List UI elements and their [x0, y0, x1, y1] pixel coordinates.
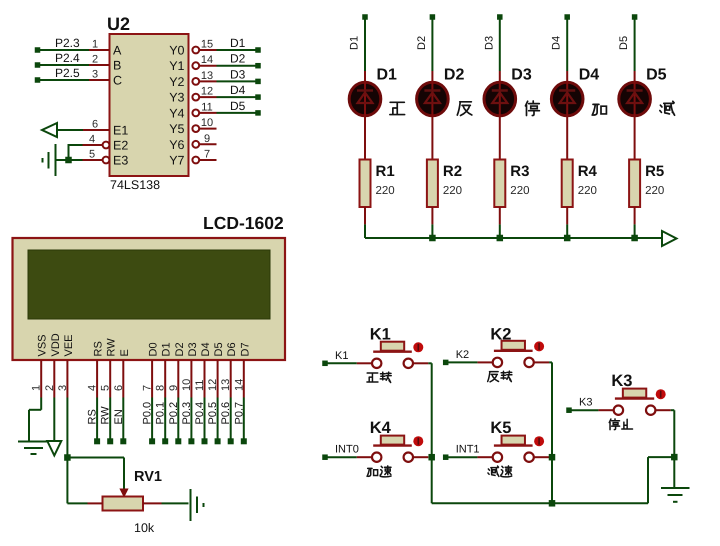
LCD module body: [13, 238, 286, 360]
svg-text:3: 3: [92, 69, 98, 81]
LED reference label D3: [511, 67, 532, 84]
pin A (pin 1) of U2: [89, 49, 110, 51]
LCD pin name D5: [213, 342, 225, 356]
pin number 13: [220, 379, 232, 391]
svg-text:220: 220: [645, 185, 664, 197]
svg-text:6: 6: [92, 119, 98, 131]
svg-text:3: 3: [57, 385, 69, 391]
RV1 reference label: [134, 469, 162, 485]
svg-text:R1: R1: [376, 163, 395, 180]
LCD pin name D3: [187, 342, 199, 356]
push button K4 right contact: [404, 453, 413, 462]
chinese char for D3: [525, 101, 539, 115]
junction bus/R5: [631, 235, 638, 242]
svg-text:C: C: [113, 74, 122, 88]
push button K4 actuator dot: [413, 436, 423, 446]
RV1 right pin: [143, 502, 162, 504]
push button K2 bar: [494, 350, 533, 352]
wire R5 to bus: [634, 207, 636, 238]
svg-text:LCD-1602: LCD-1602: [203, 213, 284, 233]
net label P2.5: [55, 66, 80, 80]
wire net RS: [96, 398, 98, 442]
pin number 10: [201, 117, 213, 129]
svg-text:P0.6: P0.6: [220, 402, 232, 425]
svg-text:D1: D1: [377, 67, 398, 84]
pin number 1: [92, 39, 98, 51]
K5 right pin: [534, 456, 549, 458]
pin number 15: [201, 39, 213, 51]
push button K3 bar: [615, 397, 654, 399]
pin number 13: [201, 70, 213, 82]
svg-text:D7: D7: [239, 342, 251, 356]
svg-text:7: 7: [142, 385, 154, 391]
resistor R2 220: [427, 160, 438, 208]
svg-text:K2: K2: [456, 349, 469, 361]
svg-text:P0.2: P0.2: [168, 402, 180, 425]
svg-text:RV1: RV1: [134, 469, 162, 485]
net label K2: [456, 349, 469, 361]
svg-text:P0.5: P0.5: [207, 402, 219, 425]
net label D4: [230, 83, 246, 97]
wire net P0.6: [230, 398, 232, 442]
pin E1 (pin 6) of U2: [83, 129, 110, 131]
terminal node INT1: [443, 454, 449, 460]
junction E2/E3: [65, 157, 72, 164]
output pin Y0 bubble (pin 15) of U2: [192, 47, 216, 54]
output pin Y1 bubble (pin 14) of U2: [192, 62, 216, 69]
terminal node P0.7: [241, 438, 247, 444]
svg-text:P0.3: P0.3: [181, 402, 193, 425]
pin number 4: [89, 134, 95, 146]
pin number 3: [57, 385, 69, 391]
pin E2 bubble (pin 4) of U2: [83, 142, 110, 149]
junction K5 right: [549, 454, 556, 461]
power arrow symbol (VDD): [47, 441, 61, 456]
svg-text:4: 4: [89, 134, 95, 146]
terminal node D5: [255, 110, 261, 116]
svg-text:P2.5: P2.5: [55, 66, 80, 80]
K2 right pin: [534, 361, 549, 363]
svg-text:8: 8: [155, 385, 167, 391]
junction VEE/RV1: [64, 454, 71, 461]
svg-text:K4: K4: [370, 419, 392, 437]
svg-text:R4: R4: [578, 163, 598, 180]
pin number 2: [92, 54, 98, 66]
wire D2 down to LED: [431, 17, 433, 71]
pin number 12: [201, 86, 213, 98]
svg-text:D5: D5: [618, 36, 630, 50]
push button K2 cap: [502, 341, 525, 350]
output pin Y3 bubble (pin 12) of U2: [192, 94, 216, 101]
wire net P2.3 to pin A: [40, 49, 90, 51]
pin number 10: [181, 379, 193, 391]
output pin Y6 bubble (pin 9) of U2: [192, 141, 216, 148]
svg-text:K1: K1: [370, 326, 391, 344]
LCD pin name D6: [226, 342, 238, 356]
ground symbol (left of U2): [43, 144, 56, 176]
net label RW: [100, 406, 112, 425]
wire K2 right to vertical: [549, 361, 552, 363]
terminal node P0.3: [188, 438, 194, 444]
button reference K1: [370, 326, 391, 344]
wire net P0.5: [217, 398, 219, 442]
wire K3 right down to ground: [671, 410, 675, 487]
svg-text:K2: K2: [490, 326, 511, 344]
wire E1 to arrow: [57, 129, 83, 131]
chinese label for K2: [488, 371, 512, 382]
vertical net label D2: [416, 36, 428, 50]
svg-text:D2: D2: [230, 52, 246, 66]
bus output arrow: [662, 231, 677, 246]
pin E3 bubble (pin 5) of U2: [83, 157, 110, 164]
wire net K2 to K2: [448, 361, 477, 363]
LCD pin name RW: [106, 338, 118, 357]
svg-text:A: A: [113, 44, 122, 58]
pin number 14: [201, 54, 213, 66]
wire net P2.5 to pin C: [40, 79, 90, 81]
terminal node D5 (top): [632, 14, 638, 20]
LCD title label LCD-1602: [203, 213, 284, 233]
push button K1 left contact: [372, 359, 381, 368]
svg-text:E: E: [119, 349, 131, 356]
wire net D3 from Y2: [217, 80, 257, 82]
LCD pin 12 stub: [217, 360, 219, 398]
pin number 12: [207, 379, 219, 391]
LCD screen: [28, 250, 270, 319]
wire VDD to power arrow: [53, 398, 55, 442]
wire net P0.1: [164, 398, 166, 442]
terminal node P0.0: [149, 438, 155, 444]
wire net D1 from Y0: [217, 49, 257, 51]
U2 reference label: [107, 14, 130, 34]
push button K5 left contact: [493, 453, 502, 462]
terminal node D3: [255, 79, 261, 85]
push button K5 right contact: [524, 453, 533, 462]
svg-text:1: 1: [92, 39, 98, 51]
net label D3: [230, 67, 246, 81]
svg-text:220: 220: [578, 185, 597, 197]
svg-text:INT0: INT0: [335, 444, 359, 456]
svg-text:D3: D3: [187, 342, 199, 356]
wire net EN: [122, 398, 124, 442]
net label P2.3: [55, 36, 80, 50]
terminal node P0.5: [215, 438, 221, 444]
LCD pin 7 stub: [151, 360, 153, 398]
wire net P0.7: [243, 398, 245, 442]
input name A: [113, 44, 122, 58]
push button K3 right contact: [646, 406, 655, 415]
terminal node P0.2: [175, 438, 181, 444]
svg-text:10: 10: [181, 379, 193, 391]
net label K1: [335, 350, 348, 362]
wire net P0.2: [177, 398, 179, 442]
junction bus/R2: [429, 235, 436, 242]
push button K4 left contact: [372, 453, 381, 462]
push button K4 bar: [373, 444, 412, 446]
LED reference label D4: [579, 67, 600, 84]
net label P0.5: [207, 402, 219, 425]
svg-text:D3: D3: [483, 36, 495, 50]
svg-text:9: 9: [204, 133, 210, 145]
vertical net label D3: [483, 36, 495, 50]
pin number 2: [44, 385, 56, 391]
svg-text:INT1: INT1: [456, 444, 480, 456]
LCD pin 9 stub: [177, 360, 179, 398]
wire net D5 from Y4: [217, 112, 257, 114]
output pin Y7 bubble (pin 7) of U2: [192, 157, 216, 164]
svg-text:P2.4: P2.4: [55, 51, 80, 65]
push button K3 cap: [623, 389, 646, 398]
resistor value 220: [376, 185, 395, 197]
net label D2: [230, 52, 246, 66]
terminal node P2.4: [35, 62, 41, 68]
svg-text:74LS138: 74LS138: [110, 178, 160, 192]
svg-text:Y6: Y6: [169, 138, 184, 152]
LED reference label D5: [646, 67, 667, 84]
K4 left pin: [357, 456, 372, 458]
decoder chip U2 74LS138 body: [110, 34, 189, 176]
wire net INT1 to K5: [448, 456, 477, 458]
terminal node D1: [255, 47, 261, 53]
LCD pin 13 stub: [230, 360, 232, 398]
enable name E1: [113, 124, 128, 138]
pin number 5: [100, 385, 112, 391]
svg-text:Y0: Y0: [169, 44, 184, 58]
LCD pin name VEE: [63, 334, 75, 356]
LCD pin 14 stub: [243, 360, 245, 398]
LED common bus wire: [365, 237, 662, 239]
svg-text:RS: RS: [87, 409, 99, 424]
svg-text:11: 11: [194, 380, 206, 391]
RV1 wiper arrow: [120, 489, 128, 497]
resistor R3 220: [494, 160, 505, 208]
LCD pin name D4: [200, 342, 212, 356]
terminal node D4 (top): [564, 14, 570, 20]
pin number 7: [142, 385, 154, 391]
input name C: [113, 74, 122, 88]
terminal node P2.3: [35, 47, 41, 53]
net label P0.2: [168, 402, 180, 425]
svg-text:D2: D2: [174, 342, 186, 356]
push button K5 bar: [494, 444, 533, 446]
svg-text:13: 13: [220, 379, 232, 391]
wire net P0.0: [151, 398, 153, 442]
terminal node RS: [94, 438, 100, 444]
svg-text:4: 4: [87, 385, 99, 391]
svg-text:D1: D1: [349, 36, 361, 50]
net label P0.1: [155, 402, 167, 425]
output name Y0: [169, 44, 184, 58]
bottom bus wire: [432, 457, 675, 503]
pin number 3: [92, 69, 98, 81]
LCD pin 3 stub: [66, 360, 68, 398]
wire net P2.4 to pin B: [40, 64, 90, 66]
svg-text:K5: K5: [490, 419, 511, 437]
LCD pin name D0: [148, 342, 160, 356]
svg-text:D1: D1: [230, 36, 246, 50]
svg-text:E3: E3: [113, 154, 128, 168]
push button K1 actuator dot: [413, 342, 423, 352]
push button K5 cap: [502, 436, 525, 445]
svg-text:13: 13: [201, 70, 213, 82]
LED reference label D1: [377, 67, 398, 84]
K4 right pin: [413, 456, 428, 458]
wire D3 down to LED: [499, 17, 501, 71]
svg-text:D0: D0: [148, 342, 160, 356]
LCD pin 5 stub: [109, 360, 111, 398]
button reference K3: [611, 372, 632, 390]
output name Y4: [169, 106, 184, 120]
LCD pin name D1: [161, 342, 173, 356]
terminal node P0.1: [162, 438, 168, 444]
svg-text:D6: D6: [226, 342, 238, 356]
pin number 9: [168, 385, 180, 391]
svg-text:VDD: VDD: [50, 333, 62, 356]
output pin Y4 bubble (pin 11) of U2: [192, 110, 216, 117]
net label P0.4: [194, 402, 206, 425]
resistor reference R1: [376, 163, 395, 180]
terminal node K3: [566, 407, 572, 413]
svg-text:VEE: VEE: [63, 334, 75, 356]
svg-text:P0.4: P0.4: [194, 402, 206, 425]
svg-text:14: 14: [233, 379, 245, 391]
svg-text:12: 12: [201, 86, 213, 98]
LCD pin 4 stub: [96, 360, 98, 398]
LED D3: [484, 71, 516, 160]
net label D5: [230, 99, 246, 113]
output name Y7: [169, 154, 184, 168]
svg-text:Y2: Y2: [169, 75, 184, 89]
LCD pin name VSS: [37, 334, 49, 356]
enable name E2: [113, 139, 128, 153]
resistor R5 220: [629, 160, 640, 208]
pin number 11: [201, 101, 212, 113]
wire D5 down to LED: [634, 17, 636, 71]
button reference K5: [490, 419, 511, 437]
svg-text:P2.3: P2.3: [55, 36, 80, 50]
terminal node P2.5: [35, 77, 41, 83]
resistor reference R2: [443, 163, 462, 180]
svg-text:D2: D2: [444, 67, 465, 84]
svg-text:D3: D3: [230, 67, 246, 81]
svg-text:D1: D1: [161, 342, 173, 356]
terminal node INT0: [322, 454, 328, 460]
chinese label for K4: [367, 466, 391, 477]
junction K3/ground/bus: [671, 454, 678, 461]
LCD pin name RS: [93, 341, 105, 356]
svg-text:10: 10: [201, 117, 213, 129]
svg-text:P0.1: P0.1: [155, 402, 167, 425]
svg-text:U2: U2: [107, 14, 130, 34]
input arrow symbol on E1: [42, 123, 57, 137]
junction K4 right: [428, 454, 435, 461]
wire VEE to RV1 wiper: [67, 458, 124, 490]
chinese char for D2: [457, 102, 472, 116]
terminal node RW: [107, 438, 113, 444]
wire vertical K1/K4 column: [431, 363, 433, 503]
chinese char for D5: [660, 101, 675, 115]
svg-text:R2: R2: [443, 163, 462, 180]
chinese char for D1: [390, 102, 405, 114]
push button K2 right contact: [524, 358, 533, 367]
resistor R4 220: [562, 160, 573, 208]
enable name E3: [113, 154, 128, 168]
input name B: [113, 59, 121, 73]
wire net D2 from Y1: [217, 65, 257, 67]
svg-text:220: 220: [443, 185, 462, 197]
terminal node D2: [255, 63, 261, 68]
wire E3 to ground: [56, 159, 83, 161]
push button K5 actuator dot: [534, 436, 544, 446]
push button K3 actuator dot: [656, 389, 666, 399]
wire net K1 to K1: [328, 362, 357, 364]
resistor value 220: [443, 185, 462, 197]
push button K1 right contact: [404, 359, 413, 368]
net label P0.0: [142, 402, 154, 425]
resistor value 220: [510, 185, 529, 197]
svg-text:7: 7: [204, 149, 210, 161]
terminal node EN: [120, 438, 126, 444]
output name Y5: [169, 122, 184, 136]
output name Y6: [169, 138, 184, 152]
svg-text:9: 9: [168, 385, 180, 391]
ground symbol (buttons): [661, 488, 690, 502]
svg-text:B: B: [113, 59, 121, 73]
LCD pin 6 stub: [122, 360, 124, 398]
wire VSS to ground: [29, 398, 41, 442]
junction bus/K2K5 column: [549, 500, 556, 507]
svg-text:E1: E1: [113, 124, 128, 138]
svg-text:12: 12: [207, 379, 219, 391]
LCD pin 2 stub: [53, 360, 55, 398]
svg-text:K3: K3: [579, 397, 592, 409]
wire VEE to RV1 left: [67, 458, 87, 504]
K3 right pin: [656, 409, 671, 411]
LED D1: [349, 71, 381, 160]
svg-text:15: 15: [201, 39, 213, 51]
output name Y1: [169, 59, 184, 73]
svg-text:K1: K1: [335, 350, 348, 362]
vertical net label D1: [349, 36, 361, 50]
svg-text:5: 5: [89, 149, 95, 161]
LCD pin name E: [119, 349, 131, 356]
svg-text:14: 14: [201, 54, 213, 66]
output name Y3: [169, 91, 184, 105]
resistor reference R4: [578, 163, 598, 180]
ground symbol (right of RV1): [191, 489, 204, 521]
chinese label for K1: [367, 372, 391, 382]
K1 left pin: [357, 362, 372, 364]
svg-text:P0.0: P0.0: [142, 402, 154, 425]
LCD pin 8 stub: [164, 360, 166, 398]
74LS138 value label: [110, 178, 160, 192]
svg-text:K3: K3: [611, 372, 632, 390]
svg-text:RW: RW: [100, 406, 112, 425]
pin number 1: [31, 385, 43, 391]
svg-text:D5: D5: [646, 67, 667, 84]
junction bus/R4: [564, 235, 571, 242]
LCD pin 1 stub: [40, 360, 42, 398]
net label P0.3: [181, 402, 193, 425]
terminal node P0.6: [228, 438, 234, 444]
svg-text:E2: E2: [113, 139, 128, 153]
LCD pin 11 stub: [204, 360, 206, 398]
svg-text:220: 220: [510, 185, 529, 197]
pin number 14: [233, 379, 245, 391]
pin B (pin 2) of U2: [89, 64, 110, 66]
wire net D4 from Y3: [217, 96, 257, 98]
resistor reference R5: [645, 163, 664, 180]
